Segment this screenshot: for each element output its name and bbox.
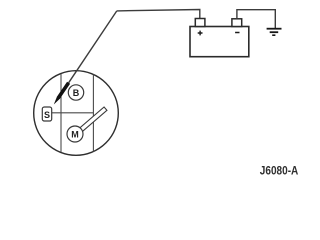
svg-text:J6080-A: J6080-A [260,166,299,178]
solenoid right mounting line [92,75,94,152]
battery BAT [190,27,249,57]
cable lug terminal at end of positive cable [54,82,70,105]
battery polarity label - [235,32,239,34]
terminal M (circle) [67,126,83,142]
wire: battery positive cable, horizontal top run [117,10,200,19]
starter solenoid body (outer circle) [34,71,119,156]
wire: battery negative to ground [237,10,275,28]
terminal S (square) [42,107,51,121]
wire: battery positive cable, diagonal run to solenoid [69,11,117,83]
battery negative terminal post [232,19,242,27]
battery polarity label + [198,31,203,36]
svg-text:M: M [71,129,79,139]
solenoid left mounting line [60,74,62,153]
ground symbol [267,29,282,36]
battery positive terminal post [195,19,205,27]
svg-text:S: S [44,110,50,120]
svg-text:B: B [73,88,80,98]
screwdriver blade across terminals [78,107,107,133]
terminal B (circle) [68,85,83,100]
solenoid divider line [52,112,94,114]
